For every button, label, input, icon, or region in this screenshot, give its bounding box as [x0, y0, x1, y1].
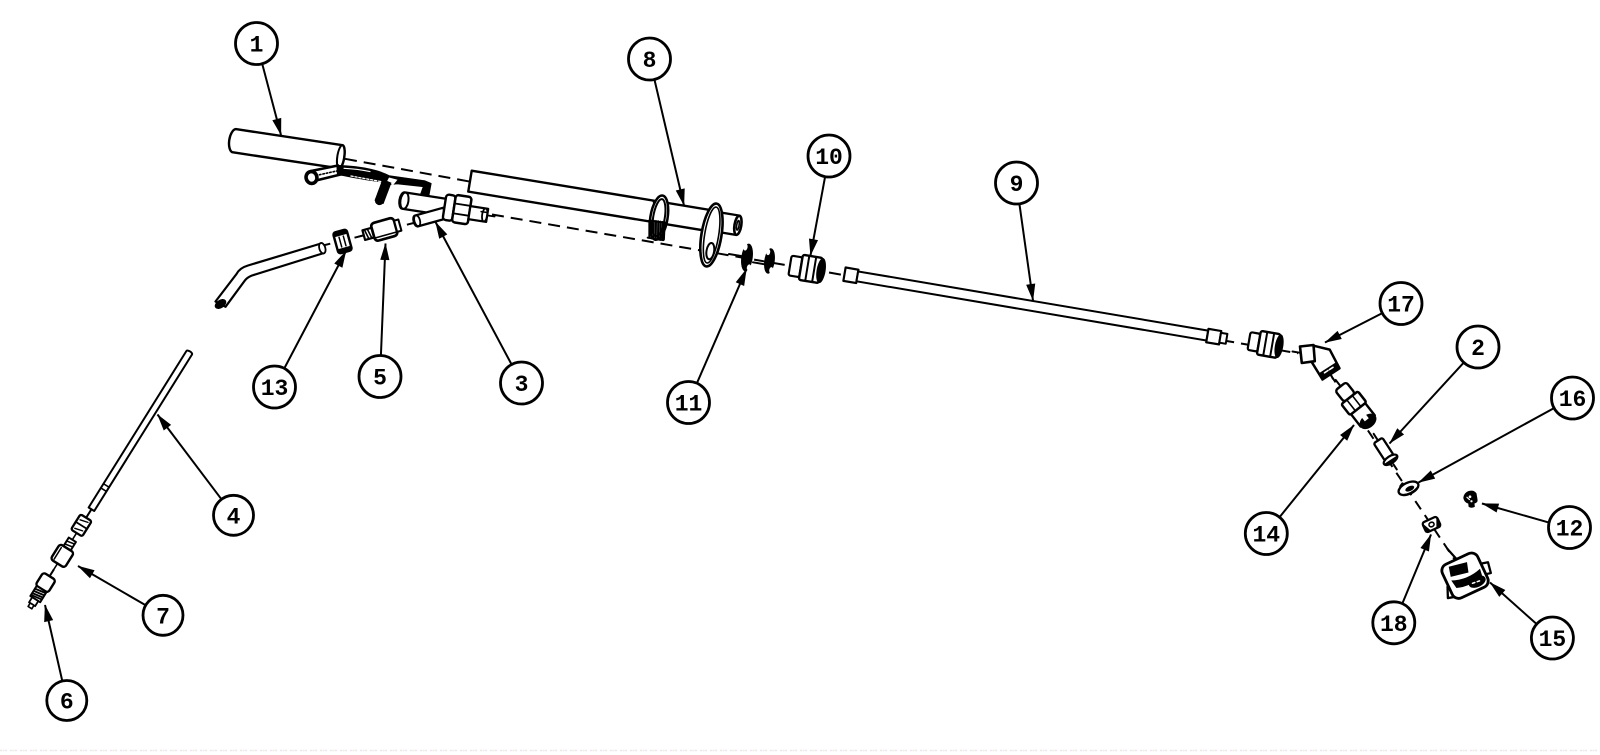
- leader 9: [1019, 204, 1033, 301]
- stem + knurl: [71, 533, 76, 541]
- svg-text:10: 10: [815, 145, 843, 171]
- leader 2: [1390, 362, 1464, 443]
- balloon 5: [359, 356, 401, 398]
- front flange plate: [696, 202, 726, 268]
- leader 5: [381, 244, 386, 356]
- balloon 4: [214, 495, 254, 535]
- balloon 12: [1549, 507, 1591, 549]
- retainer nut P18: [1422, 516, 1441, 533]
- svg-text:2: 2: [1471, 336, 1485, 362]
- seat P2: [1367, 430, 1403, 474]
- barrel tube P8 with spring and flanges: [463, 164, 745, 271]
- fitting P6: [35, 572, 55, 593]
- centerline C (nozzle cluster axis, dashed): [1330, 374, 1463, 572]
- tube P4: [89, 350, 193, 511]
- leader 12: [1482, 504, 1549, 523]
- balloon 6: [47, 681, 87, 721]
- faint bottom dotted rule: [0, 750, 1600, 752]
- leader 14: [1280, 425, 1355, 517]
- protruding tube: [710, 211, 739, 235]
- svg-text:4: 4: [227, 504, 241, 530]
- leader 18: [1402, 535, 1431, 604]
- knob: [305, 170, 319, 184]
- balloon 13: [254, 366, 296, 408]
- leader 6: [45, 605, 62, 681]
- svg-text:8: 8: [643, 48, 657, 74]
- svg-text:5: 5: [373, 366, 387, 392]
- leader 7: [78, 566, 146, 605]
- valve body tube: [398, 192, 446, 216]
- trigger leg: [375, 179, 392, 204]
- svg-text:11: 11: [675, 392, 703, 418]
- spring (hatched): [647, 220, 667, 241]
- leader 8: [654, 79, 684, 205]
- balloon 8: [629, 38, 671, 80]
- svg-text:7: 7: [156, 604, 170, 630]
- trigger lever assembly: [305, 166, 431, 206]
- leader 11: [697, 269, 747, 383]
- svg-text:17: 17: [1387, 293, 1415, 319]
- balloon 11: [668, 382, 710, 424]
- leader 16: [1419, 408, 1555, 482]
- balloon 18: [1373, 602, 1415, 644]
- coupler nut P10: [788, 253, 828, 284]
- vane P12: [1463, 491, 1477, 508]
- bent grip tube: [214, 242, 326, 309]
- leader 15: [1490, 583, 1537, 625]
- white notch: [387, 178, 398, 186]
- inlet tube P3: [412, 208, 446, 227]
- packing nut P5 with threaded stem: [356, 216, 403, 245]
- balloon 2: [1457, 326, 1499, 368]
- main dark body: [337, 166, 431, 198]
- spray tube P4 chain: tube, collar, nut P7, fitting P6: [23, 347, 197, 612]
- nut P7: [50, 544, 74, 568]
- leader 10: [811, 177, 826, 256]
- trigger bar (thin tube to knob): [311, 166, 341, 182]
- balloon 10: [808, 135, 850, 177]
- centerline A (gun barrel axis, dashed): [345, 159, 471, 182]
- nozzle holder P14: [1327, 374, 1380, 433]
- leader 4: [158, 415, 222, 500]
- elbow P17: [1293, 345, 1340, 380]
- centerline D (left spray tube axis, dashed): [31, 356, 187, 606]
- balloon 14: [1245, 513, 1287, 555]
- svg-text:13: 13: [261, 376, 289, 402]
- rear flange ring: [647, 194, 671, 241]
- centerline B (front lance axis, dashed): [492, 215, 1298, 354]
- lance tube P9: [843, 267, 1227, 345]
- svg-text:1: 1: [250, 33, 264, 59]
- svg-text:15: 15: [1539, 627, 1567, 653]
- balloon 7: [143, 595, 183, 635]
- svg-text:18: 18: [1380, 612, 1408, 638]
- balloon 9: [996, 162, 1038, 204]
- svg-text:12: 12: [1556, 517, 1584, 543]
- svg-text:16: 16: [1559, 387, 1587, 413]
- packing gland P13: [333, 229, 352, 254]
- leader 17: [1325, 313, 1382, 342]
- balloon 1: [236, 23, 278, 65]
- balloon 17: [1380, 283, 1422, 325]
- coupler nut at lance end: [1247, 329, 1285, 359]
- balloon 15: [1531, 617, 1573, 659]
- handle tube P1: [228, 128, 346, 169]
- collar: [85, 509, 91, 519]
- svg-text:3: 3: [515, 372, 529, 398]
- leader 1: [262, 64, 281, 135]
- centerline E (valve stem axis, dashed): [323, 209, 470, 246]
- o-ring set P11: [729, 243, 776, 275]
- seal washer P16: [1396, 478, 1421, 499]
- svg-text:6: 6: [60, 690, 74, 716]
- valve bonnet / outlet stem: [442, 193, 497, 228]
- balloon 16: [1552, 377, 1594, 419]
- leader 3: [436, 222, 512, 365]
- svg-text:14: 14: [1252, 523, 1280, 549]
- leader 13: [284, 251, 346, 368]
- svg-text:9: 9: [1010, 172, 1024, 198]
- nozzle cap P15: [1435, 548, 1497, 603]
- balloon 3: [501, 362, 543, 404]
